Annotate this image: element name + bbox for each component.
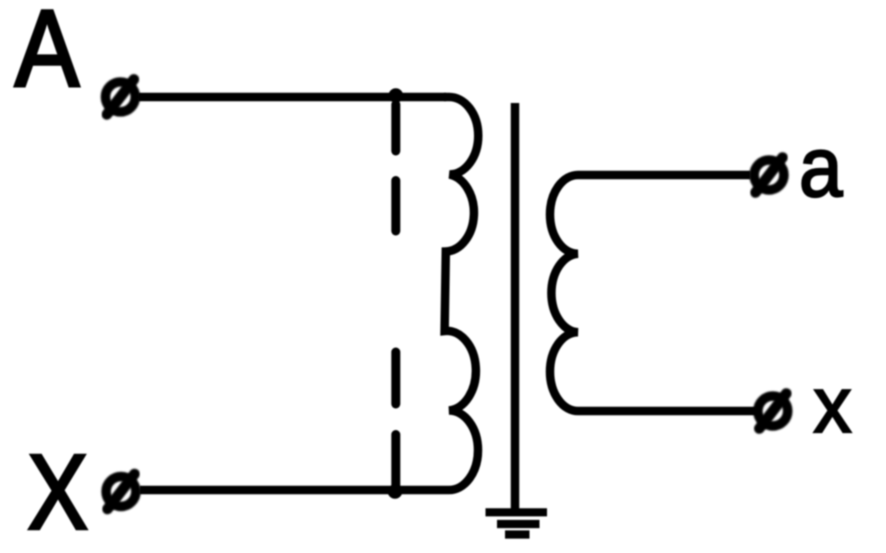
ground — [486, 512, 548, 534]
wire: dashed tap line — [391, 105, 400, 488]
secondary winding (3 humps) — [550, 175, 755, 411]
wire: primary winding bottom to terminal X — [140, 486, 449, 495]
terminal X (slashed-circle pin) — [106, 474, 136, 509]
node: junction dot top (tap meets top wire) — [389, 88, 404, 103]
svg-text:A: A — [15, 0, 80, 109]
terminal a (slashed-circle pin) — [754, 158, 784, 193]
transformer core line — [511, 103, 520, 510]
svg-text:X: X — [28, 434, 88, 552]
svg-text:x: x — [814, 360, 852, 449]
wire: terminal A to primary winding top — [139, 93, 446, 102]
svg-text:a: a — [799, 120, 843, 214]
node: junction dot bottom — [388, 484, 403, 499]
terminal x (slashed-circle pin) — [758, 394, 788, 429]
terminal A (slashed-circle pin) — [106, 79, 136, 114]
primary winding (2 humps, straight section, 2 humps) — [444, 97, 478, 490]
